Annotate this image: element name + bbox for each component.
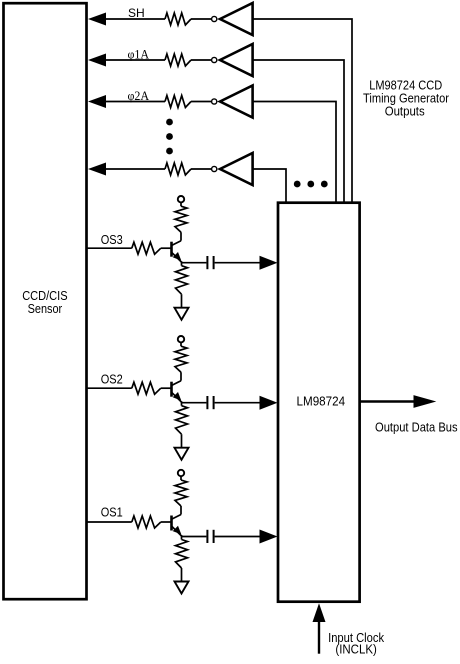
- svg-text:CCD/CIS: CCD/CIS: [22, 289, 67, 303]
- svg-text:SH: SH: [128, 6, 145, 20]
- svg-text:Timing Generator: Timing Generator: [363, 92, 449, 106]
- svg-text:OS1: OS1: [101, 506, 123, 520]
- svg-text:Outputs: Outputs: [385, 105, 425, 119]
- svg-text:LM98724 CCD: LM98724 CCD: [369, 78, 442, 92]
- svg-text:Output Data Bus: Output Data Bus: [375, 419, 458, 434]
- svg-text:Sensor: Sensor: [28, 302, 63, 316]
- svg-text:φ1A: φ1A: [127, 47, 149, 61]
- svg-text:LM98724: LM98724: [297, 394, 346, 409]
- svg-text:OS3: OS3: [101, 233, 123, 247]
- svg-text:(INCLK): (INCLK): [335, 641, 376, 656]
- svg-text:OS2: OS2: [101, 372, 123, 386]
- svg-text:φ2A: φ2A: [127, 89, 149, 103]
